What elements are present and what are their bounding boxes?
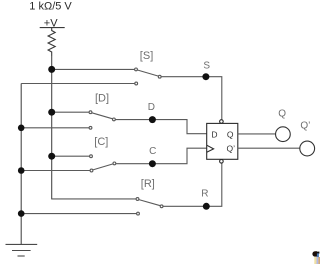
- junction dot rail-C: [48, 153, 55, 160]
- wire R pole to node R and corner up to flip-flop: [163, 163, 222, 206]
- flip-flop U1 box: [207, 123, 238, 159]
- svg-text:Q: Q: [278, 108, 286, 119]
- junction dot leftrail-D: [18, 125, 25, 132]
- svg-text:1 kΩ/5 V: 1 kΩ/5 V: [29, 0, 72, 12]
- label [R]: [141, 178, 155, 190]
- svg-text:C: C: [149, 146, 156, 157]
- wire main rail turn to R switch: [51, 198, 136, 200]
- pin label Q': [227, 143, 236, 153]
- svg-text:R: R: [201, 189, 208, 200]
- svg-text:[C]: [C]: [94, 136, 108, 148]
- switch [D] pole: [113, 118, 116, 121]
- switch [C] top contact: [90, 155, 93, 158]
- svg-text:[D]: [D]: [95, 92, 109, 104]
- wire S top contact from rail: [52, 68, 135, 70]
- switch [R] bottom contact: [137, 212, 140, 215]
- junction dot rail-S: [48, 66, 55, 73]
- label D: [148, 102, 155, 113]
- resistor R1 1k: [48, 28, 55, 56]
- indicator lamp Q': [300, 141, 315, 156]
- svg-text:Q: Q: [227, 129, 234, 139]
- junction dot leftrail-R: [18, 210, 25, 217]
- label Q: [278, 108, 286, 119]
- ground symbol: [6, 244, 38, 256]
- wire left ground rail vertical: [20, 84, 22, 245]
- switch [S] bottom contact: [135, 82, 138, 85]
- svg-text:D: D: [211, 129, 217, 139]
- cursor icon fragment bottom-right: [312, 251, 320, 264]
- wire D pole to node D then to flip-flop D input: [115, 120, 206, 134]
- switch [S] pole: [158, 75, 161, 78]
- label S: [203, 60, 210, 71]
- label [C]: [94, 136, 108, 148]
- label [D]: [95, 92, 109, 104]
- wire S bottom contact from left rail: [21, 83, 135, 85]
- switch [C] pole: [113, 162, 116, 165]
- switch [C] bottom contact: [90, 169, 93, 172]
- switch [C] arm: [93, 164, 113, 170]
- label R: [201, 189, 208, 200]
- switch [D] top contact: [89, 111, 92, 114]
- svg-text:Q’: Q’: [227, 143, 236, 153]
- wire Q' output: [238, 147, 300, 149]
- switch [R] pole: [160, 205, 163, 208]
- indicator lamp Q: [276, 127, 291, 142]
- wire main +V rail vertical: [51, 56, 53, 199]
- switch [R] arm: [139, 200, 160, 206]
- switch [D] bottom contact: [89, 126, 92, 129]
- value label 1 kOhm/5 V: [29, 0, 72, 12]
- label [S]: [140, 50, 153, 62]
- svg-text:[S]: [S]: [140, 50, 153, 62]
- svg-text:S: S: [203, 60, 210, 71]
- switch [R] top contact: [136, 198, 139, 201]
- wire C bottom contact from left rail: [21, 170, 90, 172]
- wire Q output: [238, 133, 276, 135]
- wire C pole to node C then to flip-flop clock input: [116, 148, 207, 164]
- svg-text:[R]: [R]: [141, 178, 155, 190]
- node D dot: [149, 116, 156, 123]
- wire S pole to node S and corner: [161, 77, 222, 120]
- wire D bottom contact from left rail: [21, 127, 89, 129]
- junction dot rail-D: [48, 109, 55, 116]
- pin label D: [211, 129, 217, 139]
- node R dot: [203, 203, 210, 210]
- switch [S] top contact: [135, 68, 138, 71]
- svg-text:D: D: [148, 102, 155, 113]
- node S dot: [202, 73, 209, 80]
- label Q': [300, 121, 310, 132]
- svg-text:Q’: Q’: [300, 121, 310, 132]
- +V rail bar: [40, 27, 65, 29]
- node C dot: [149, 160, 156, 167]
- switch [S] arm: [137, 70, 158, 76]
- flip-flop clock triangle: [207, 145, 214, 152]
- wire D top contact from rail: [52, 111, 89, 113]
- flip-flop set bubble: [220, 120, 224, 124]
- +V label: [44, 18, 58, 30]
- wire R bottom contact from left rail: [21, 213, 136, 215]
- switch [D] arm: [92, 113, 113, 119]
- flip-flop reset bubble: [220, 160, 224, 164]
- label C: [149, 146, 156, 157]
- junction dot leftrail-C: [18, 167, 25, 174]
- pin label Q: [227, 129, 234, 139]
- wire C top contact from rail: [52, 155, 90, 157]
